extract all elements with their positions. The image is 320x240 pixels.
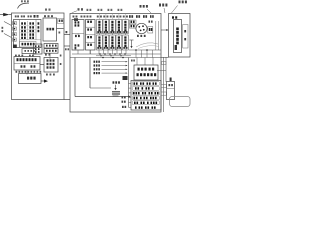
- label 81: [172, 1, 187, 14]
- leader curve label 100: [18, 0, 30, 8]
- receiver box: [14, 57, 40, 71]
- connector mark above narrow box: [170, 78, 172, 82]
- vertical wire x90: [90, 58, 111, 89]
- vertical wire x166: [165, 57, 167, 82]
- small box pair A: [44, 44, 58, 49]
- small box pair B: [44, 49, 58, 54]
- numeral row 71-74: [73, 16, 92, 18]
- down arrow assembly: [130, 40, 134, 48]
- stub labels near table: [122, 96, 127, 108]
- photodetector box: [134, 65, 158, 80]
- wire receiver to power box: [26, 70, 28, 75]
- label 20 small box: [34, 15, 39, 18]
- labels around box 35: [45, 54, 61, 76]
- numeral row 41: [16, 71, 42, 73]
- outer box: transmitter unit: [12, 13, 65, 100]
- tick boxes on wires: [161, 85, 167, 96]
- numeral row 21-24: [15, 15, 53, 17]
- bus y50 right: [129, 49, 161, 57]
- bus line lower: [70, 57, 161, 59]
- vertical wire x128.5: [129, 58, 132, 108]
- dense cell grid: register bank: [97, 14, 129, 51]
- input arrow: [0, 13, 12, 16]
- controller box: [43, 18, 57, 41]
- vertical wire x163: [162, 57, 164, 112]
- display top dots: [172, 16, 177, 18]
- narrow box bottom right: [167, 82, 175, 100]
- bus line mid partial: [96, 55, 131, 56]
- plug wire with arrow: [41, 79, 48, 82]
- gap connector wires: [57, 29, 71, 51]
- wire left box bottom to middle box: [64, 99, 70, 101]
- label 101: [159, 4, 167, 14]
- wire right box bottom: [161, 57, 169, 59]
- wire into display unit: [161, 29, 169, 31]
- leader arrows into connectors: [2, 22, 12, 38]
- labels above register bank: [87, 9, 123, 11]
- wires into photodetector: [131, 58, 153, 66]
- numeral row 31-33: [15, 55, 34, 57]
- signal table: [131, 81, 161, 111]
- small box left: [34, 44, 43, 54]
- box 35: [44, 58, 58, 73]
- power box: [19, 74, 42, 84]
- top text row mid-right: [129, 15, 154, 18]
- text below dial: [137, 35, 146, 37]
- wire between receiver and box35: [40, 53, 61, 65]
- small dark box lower: [123, 76, 128, 80]
- vertical wire x75: [75, 58, 131, 98]
- left edge connectors: [13, 22, 17, 49]
- key matrix block: [14, 20, 42, 48]
- tick box on wires upper: [162, 62, 167, 65]
- numeral row mid: [97, 16, 128, 18]
- display inner tall box: [174, 20, 182, 53]
- interband connectors A B: [78, 34, 91, 55]
- signal label list 12a-12d: [94, 61, 128, 75]
- display inner narrow box: [183, 25, 188, 49]
- oval dial: [136, 23, 147, 33]
- register column B: [86, 20, 96, 51]
- mid-right stacked boxes: [130, 20, 137, 28]
- vertical connectors mid-right: [156, 21, 159, 50]
- rounded unit outline: [170, 97, 191, 107]
- label 2e with down arrow: [112, 81, 120, 96]
- main unit box: [70, 14, 161, 113]
- display unit box: [169, 14, 191, 58]
- small box right of dial: [148, 21, 153, 34]
- dashed register box: [22, 49, 36, 54]
- dark tab on register A: [74, 18, 78, 21]
- bus line upper: [72, 53, 161, 55]
- grid feeders: [78, 49, 126, 55]
- label above 44-52: [45, 9, 51, 11]
- label 70 with leader: [72, 8, 84, 13]
- label 110: [140, 5, 152, 13]
- small box right of controller: [58, 19, 64, 24]
- register column A: [72, 20, 84, 51]
- leader curves mid-right: [136, 43, 159, 49]
- wire photodetector to right wires: [157, 70, 166, 72]
